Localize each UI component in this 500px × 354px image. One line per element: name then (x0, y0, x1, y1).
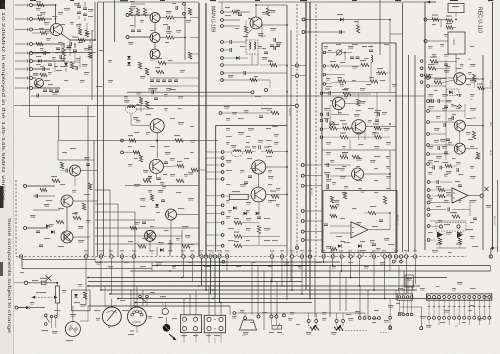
capacitor (257, 217, 261, 219)
value label (52, 57, 56, 58)
corner wire (490, 266, 492, 272)
diode (236, 56, 239, 60)
wire (411, 300, 413, 313)
pin (335, 320, 338, 323)
drop (220, 250, 222, 256)
capacitor (433, 166, 435, 170)
terminal label (330, 250, 334, 251)
pin (221, 244, 224, 247)
wire (407, 300, 409, 313)
bottom bus wire (236, 312, 365, 314)
value label (226, 160, 232, 161)
value label (58, 246, 64, 247)
wire (430, 225, 439, 228)
IF box left edge (215, 126, 217, 253)
resistor (177, 164, 184, 167)
diode (74, 294, 78, 297)
pin (45, 314, 48, 317)
value label (316, 262, 321, 263)
value label (58, 42, 63, 43)
bus vertical in MAIN (97, 2, 99, 256)
box (41, 281, 46, 284)
connector pin (193, 317, 197, 321)
junction (134, 305, 136, 307)
value label (470, 46, 474, 47)
value label (330, 100, 334, 101)
value label (374, 168, 378, 169)
value label (60, 66, 65, 67)
drop (389, 253, 391, 257)
value label (178, 96, 183, 97)
resistor (476, 152, 479, 159)
value label (262, 12, 268, 13)
value label (428, 74, 433, 75)
wire (123, 151, 140, 153)
capacitor (326, 119, 328, 123)
capacitor (444, 152, 448, 154)
capacitor (264, 52, 268, 54)
stub wire from page edge (15, 87, 30, 89)
terminal on dashed line (204, 255, 207, 258)
capacitor (327, 174, 329, 178)
value label (374, 192, 378, 193)
wire (258, 202, 260, 212)
wire (430, 144, 455, 146)
value label (470, 288, 476, 289)
value label (250, 322, 254, 323)
capacitor (248, 176, 252, 178)
resistor (78, 28, 81, 35)
connector pin bottom (468, 316, 471, 319)
value label (470, 108, 476, 109)
pin (307, 320, 310, 323)
drop (359, 286, 361, 317)
pin wire (468, 299, 470, 317)
terminal label (413, 250, 417, 251)
wire (440, 100, 452, 102)
value label (330, 61, 336, 62)
capacitor (444, 123, 446, 127)
sub-board box (AF section) (323, 191, 397, 253)
top edge ticks (30, 0, 493, 2)
value label (468, 139, 473, 140)
value label (436, 116, 440, 117)
resistor (250, 78, 257, 81)
value label (96, 318, 100, 319)
drop wire (226, 258, 228, 271)
connector pin top (488, 296, 491, 299)
wire (455, 13, 457, 18)
wire (46, 276, 52, 282)
pin (378, 317, 381, 320)
wire (78, 2, 80, 5)
value label (246, 218, 251, 219)
value label (188, 262, 193, 263)
stub (14, 282, 24, 284)
value label (369, 77, 374, 78)
drop (87, 306, 89, 321)
pin wire (488, 299, 490, 317)
value label (172, 266, 176, 267)
capacitor (176, 6, 178, 10)
junction (56, 282, 58, 284)
capacitor (156, 80, 160, 82)
wire (452, 208, 470, 210)
value label (140, 198, 146, 199)
wire from left board (206, 245, 221, 247)
value label (296, 324, 300, 325)
connector pin (193, 327, 197, 331)
connector pin top (428, 296, 431, 299)
wire (84, 18, 86, 21)
value label (78, 284, 82, 285)
right edge rail (492, 2, 494, 250)
wire (468, 195, 480, 197)
wire (242, 235, 280, 237)
terminal label (321, 250, 325, 251)
value label (334, 200, 340, 201)
terminal on dashed line (388, 255, 391, 258)
connector pin bottom (483, 316, 486, 319)
lever (141, 298, 147, 303)
resistor (438, 238, 441, 244)
drop (345, 278, 347, 312)
value label (226, 118, 230, 119)
value label (172, 3, 176, 4)
resistor (234, 244, 242, 247)
value label (96, 86, 103, 87)
connector pin (410, 296, 413, 299)
wire (51, 318, 53, 328)
value label (226, 216, 230, 217)
value label (170, 89, 176, 90)
value label (337, 77, 342, 78)
value label (62, 152, 67, 153)
wire (342, 52, 352, 54)
resistor (438, 188, 445, 191)
resistor (188, 52, 191, 59)
value label (269, 332, 274, 333)
pin (363, 317, 366, 320)
wire (430, 163, 434, 165)
terminal label (208, 250, 212, 251)
value label (148, 88, 153, 89)
pin (358, 317, 361, 320)
value label (163, 24, 168, 25)
value label (36, 56, 41, 57)
pot VR3 (451, 104, 462, 108)
pin (389, 327, 392, 330)
junction (389, 100, 391, 102)
pin (302, 31, 305, 34)
capacitor (161, 200, 165, 202)
value label (324, 118, 329, 119)
wire (33, 87, 61, 89)
value label (430, 57, 437, 58)
resistor (343, 127, 350, 130)
bus wire (110, 293, 406, 295)
value label (336, 204, 340, 205)
value label (332, 266, 336, 267)
capacitor (274, 46, 276, 50)
drop (212, 250, 214, 256)
tick (214, 328, 216, 330)
wire (439, 244, 441, 248)
coil (371, 55, 373, 62)
wire (emitter diagonal) (61, 34, 70, 41)
value label (178, 122, 184, 123)
value label (72, 66, 76, 67)
pin (left edge) (30, 87, 33, 90)
drop wire (490, 248, 492, 258)
drop (109, 190, 111, 256)
cross mark (485, 187, 489, 191)
wire (136, 326, 138, 333)
value label (226, 128, 230, 129)
wire (256, 4, 287, 6)
wire (150, 85, 178, 87)
value label (444, 310, 450, 311)
pin (221, 11, 224, 14)
value label (386, 142, 391, 143)
wire (364, 212, 368, 214)
pin (420, 81, 423, 84)
wire (326, 82, 338, 84)
value label (388, 305, 394, 306)
drop (353, 253, 355, 257)
resistor (70, 62, 73, 69)
value label (276, 188, 280, 189)
pin (221, 178, 224, 181)
wire (222, 72, 287, 74)
value label (268, 184, 272, 185)
junction (389, 123, 391, 125)
value label (428, 172, 433, 173)
value label (456, 58, 460, 59)
value label (78, 42, 83, 43)
pin (24, 185, 27, 188)
value label (238, 118, 244, 119)
value label (466, 132, 471, 133)
value label (268, 170, 272, 171)
junction (459, 95, 461, 97)
value label (446, 66, 451, 67)
value label (134, 158, 138, 159)
value label (370, 206, 376, 207)
value label (432, 250, 438, 251)
resistor (338, 80, 346, 83)
wire (364, 173, 390, 175)
pin (406, 313, 409, 316)
label (45, 31, 51, 32)
wire (430, 208, 446, 210)
cross mark (63, 233, 71, 241)
stub (220, 333, 222, 338)
wire (358, 134, 360, 140)
drop wire (395, 258, 397, 262)
value label (50, 224, 54, 225)
drop (403, 271, 405, 294)
wire (154, 23, 156, 33)
value label (70, 22, 74, 23)
value label (120, 300, 125, 301)
value label (324, 164, 330, 165)
value label (108, 80, 113, 81)
value label (52, 16, 57, 17)
capacitor (39, 245, 43, 247)
wire (430, 133, 447, 135)
capacitor (327, 184, 329, 188)
connector pin top (478, 296, 481, 299)
diode (449, 90, 452, 94)
stub (183, 338, 185, 343)
resistor (139, 155, 142, 162)
wire (258, 35, 266, 37)
wire (151, 262, 153, 271)
pin (323, 65, 326, 68)
top wire (98, 1, 200, 3)
diode (160, 248, 163, 252)
value label (163, 174, 167, 175)
junction (359, 285, 361, 287)
value label (156, 262, 162, 263)
pin (183, 2, 186, 5)
value label (254, 76, 258, 77)
value label (478, 318, 482, 319)
wire from left board (206, 212, 221, 214)
value label (456, 68, 461, 69)
pin (427, 189, 430, 192)
wire (386, 72, 390, 74)
capacitor (70, 42, 72, 46)
value label (168, 243, 173, 244)
junction (100, 289, 102, 291)
wire (63, 44, 65, 48)
value label (368, 120, 372, 121)
junction (286, 91, 288, 93)
wire (350, 127, 352, 128)
pin wire (473, 299, 475, 317)
capacitor (444, 106, 448, 108)
wire (184, 4, 186, 60)
drop (362, 253, 364, 257)
value label (326, 179, 332, 180)
value label (142, 238, 147, 239)
value label (240, 46, 245, 47)
connector pin (182, 317, 186, 321)
value label (228, 240, 234, 241)
resistor (88, 52, 91, 58)
arrow head (427, 1, 430, 3)
resistor (266, 150, 273, 153)
wire (465, 78, 483, 80)
wire (240, 320, 257, 330)
value label (264, 218, 270, 219)
pin (427, 201, 430, 204)
wire (224, 49, 231, 51)
resistor (330, 196, 333, 203)
pin (45, 323, 48, 326)
transistor (51, 24, 63, 36)
resistor (343, 92, 351, 95)
wire (222, 79, 270, 81)
resistor (266, 8, 269, 16)
value label (170, 174, 175, 175)
stub wire from page edge (15, 77, 30, 79)
terminal label (290, 250, 294, 251)
resistor (445, 164, 452, 167)
wire (33, 195, 55, 197)
resistor (129, 8, 132, 16)
wire (129, 36, 150, 38)
wire (339, 330, 368, 332)
value label (470, 80, 476, 81)
value label (176, 238, 180, 239)
connector pin top (433, 296, 436, 299)
transistor (454, 143, 465, 154)
drop wire (183, 258, 185, 278)
value label (70, 314, 76, 315)
connector pin (398, 296, 401, 299)
value label (444, 224, 450, 225)
junction (205, 289, 207, 291)
wire run (95, 243, 199, 245)
value label (446, 100, 451, 101)
cross mark (146, 232, 154, 240)
wire (308, 323, 310, 327)
value label (340, 168, 345, 169)
value label (46, 200, 52, 201)
drop wire (400, 258, 402, 262)
resistor (473, 74, 476, 82)
value label (162, 186, 166, 187)
value label (178, 108, 182, 109)
value label (356, 222, 362, 223)
wire (79, 23, 81, 28)
value label (226, 136, 232, 137)
value label (226, 170, 232, 171)
wire (32, 296, 54, 298)
drop (276, 282, 278, 316)
value label (232, 112, 237, 113)
board border vertical (MAIN right edge outer) (198, 3, 200, 256)
resistor (143, 179, 151, 182)
value label (270, 10, 276, 11)
value label (432, 15, 438, 16)
terminal label (339, 250, 343, 251)
terminal (251, 91, 254, 94)
wire (50, 43, 64, 45)
junction (169, 270, 171, 272)
value label (232, 316, 237, 317)
wire (260, 64, 270, 66)
wire (60, 170, 66, 172)
value label (466, 229, 473, 230)
value label (128, 42, 134, 43)
wire (84, 2, 86, 7)
value label (270, 191, 276, 192)
capacitor (49, 90, 53, 92)
box (427, 294, 492, 300)
drop (117, 204, 119, 256)
wire (242, 245, 287, 247)
transistor (454, 73, 466, 85)
value label (268, 266, 272, 267)
value label (166, 88, 172, 89)
pin wire (483, 299, 485, 317)
value label (306, 332, 312, 333)
junction (341, 270, 343, 272)
